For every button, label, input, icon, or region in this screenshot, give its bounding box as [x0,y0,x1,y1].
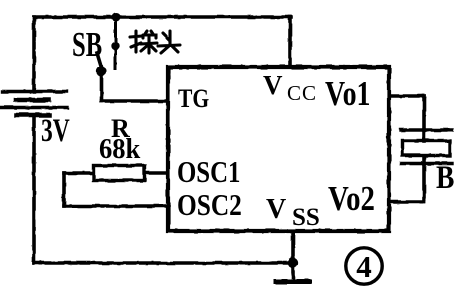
svg-text:TG: TG [178,85,209,113]
svg-text:Vo1: Vo1 [325,74,370,113]
switch SB pole dot [96,66,106,76]
svg-text:4: 4 [356,249,372,284]
svg-text:SS: SS [292,204,320,231]
wire to OSC2 (pin OSC2) [64,204,167,208]
wire left rail upper (battery top lead) [32,17,36,91]
svg-text:3V: 3V [41,112,70,149]
node junction on top rail [112,13,121,22]
svg-text:B: B [436,159,454,196]
wire to Vo2 (pin Vo2) [389,200,424,204]
svg-text:OSC1: OSC1 [177,156,240,190]
wire feedback left vertical [62,173,66,206]
buzzer B top stub [422,130,426,141]
buzzer B bottom stub [422,156,426,164]
switch SB contact dot upper [111,42,119,50]
buzzer B piezo disc [403,141,450,156]
wire bottom rail [34,261,293,265]
svg-text:Vo2: Vo2 [328,178,375,217]
figure number 4 [346,248,382,284]
switch SB lever [97,53,102,68]
svg-text:CC: CC [287,81,317,105]
svg-text:V: V [266,194,286,225]
node junction VSS/bottom rail [288,258,298,268]
label 探头 (probe) [130,31,180,53]
wire to ground [291,263,295,279]
wire left rail lower (battery bottom lead) [32,115,36,263]
svg-text:OSC2: OSC2 [177,189,242,223]
svg-text:V: V [263,70,283,100]
wire switch to TG horizontal (pin TG) [102,99,168,103]
wire buzzer down [422,164,426,202]
buzzer B top plate [401,128,452,131]
wire top rail [34,15,291,19]
wire switch to TG vertical [100,72,104,102]
wire Vo1 down to buzzer [422,96,426,130]
buzzer B bottom plate [401,162,452,165]
resistor R left lead [64,171,93,175]
wire VSS pin down from IC [291,231,295,263]
wire VCC pin from top rail [288,17,292,66]
wire Vo1 pin stub [389,94,424,98]
IC U1 body [168,67,389,231]
battery GB 3V [1,92,67,116]
svg-text:68k: 68k [99,133,141,164]
resistor R right lead (pin OSC1) [145,171,167,175]
ground bar [276,279,309,284]
resistor R body [94,166,145,181]
svg-text:SB: SB [72,25,102,64]
switch SB fixed contact wire [114,17,117,69]
